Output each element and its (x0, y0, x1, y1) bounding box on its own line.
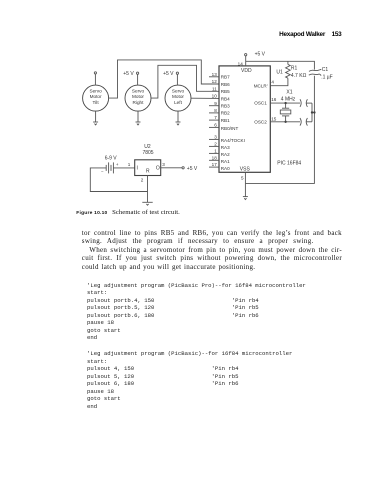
svg-text:PIC 16F84: PIC 16F84 (277, 161, 301, 167)
svg-text:3: 3 (214, 135, 217, 140)
svg-text:16: 16 (271, 97, 277, 102)
svg-text:VDD: VDD (241, 68, 252, 74)
svg-text:17: 17 (212, 162, 218, 167)
capacitor C2 (OSC1) (300, 99, 307, 107)
svg-text:2: 2 (214, 142, 217, 147)
pin 5 VSS (240, 166, 251, 183)
capacitor C3 (OSC2) (300, 118, 307, 126)
svg-text:1: 1 (128, 162, 131, 167)
svg-text:RB3: RB3 (221, 104, 230, 109)
crystal X1 (280, 90, 295, 122)
svg-text:RB4: RB4 (221, 96, 230, 101)
svg-text:RB0/INT: RB0/INT (221, 126, 239, 131)
ground (right servo) (136, 111, 141, 125)
voltage regulator U2 7805 (135, 144, 161, 176)
wire C3 to inner rail (306, 121, 312, 123)
svg-text:RB6: RB6 (221, 82, 230, 87)
svg-text:+: + (116, 162, 119, 167)
pin 9 RB3 (209, 101, 230, 109)
svg-text:Motor: Motor (172, 94, 184, 99)
svg-text:6: 6 (214, 123, 217, 128)
ground (VSS pin 5) (243, 183, 248, 199)
wire left servo to RB4 pin 10 (191, 97, 219, 99)
terminal +5V (regulator output) (182, 166, 198, 172)
svg-text:6-9 V: 6-9 V (105, 156, 118, 162)
wire tilt servo to RB6 pin 12 (109, 60, 219, 98)
pin 3 RA4/TOCKI (209, 135, 245, 144)
svg-text:O: O (156, 166, 160, 172)
svg-text:Tilt: Tilt (93, 100, 100, 105)
pin 15 OSC2 (254, 116, 276, 124)
svg-text:12: 12 (212, 79, 218, 84)
svg-text:9: 9 (214, 101, 217, 106)
battery B1 6-9V (101, 156, 119, 174)
svg-text:+5 V: +5 V (123, 71, 134, 77)
pin 12 RB6 (212, 79, 230, 87)
capacitor C1 (309, 67, 333, 80)
pin 13 RB7 (209, 72, 230, 80)
svg-text:RB2: RB2 (221, 111, 230, 116)
svg-text:7: 7 (214, 115, 217, 120)
svg-text:RA1: RA1 (221, 159, 230, 164)
svg-text:8: 8 (214, 108, 217, 113)
pin 17 RA0 (209, 162, 230, 171)
pin 14 VDD (238, 56, 252, 74)
svg-text:OSC1: OSC1 (254, 101, 267, 106)
svg-text:R1: R1 (291, 65, 298, 71)
svg-text:Servo: Servo (172, 89, 185, 94)
terminal +5V (VDD) (245, 52, 266, 58)
svg-text:RA2: RA2 (221, 152, 230, 157)
terminal +5V (right servo) (123, 71, 138, 85)
svg-text:U1: U1 (276, 70, 283, 76)
svg-text:.1 µF: .1 µF (321, 74, 333, 80)
svg-text:Motor: Motor (90, 94, 102, 99)
pin 16 OSC1 (254, 97, 276, 106)
svg-text:7805: 7805 (142, 150, 153, 156)
wire right servo to RB5 pin 11 (151, 65, 219, 98)
wire VSS ground rail to right rail (245, 76, 314, 184)
svg-text:13: 13 (212, 72, 218, 77)
svg-text:RA3: RA3 (221, 145, 230, 150)
wire junction tie to right rail (312, 112, 314, 114)
svg-text:2: 2 (141, 178, 144, 183)
svg-text:18: 18 (212, 155, 218, 160)
svg-text:14: 14 (238, 61, 244, 66)
wire battery positive to regulator input pin 1 (113, 167, 134, 169)
svg-text:RA0: RA0 (221, 166, 230, 171)
svg-text:+5 V: +5 V (163, 71, 174, 77)
ground (regulator) (142, 202, 152, 205)
op microcontroller U1 PIC 16F84 body (219, 66, 270, 172)
pin 10 RB4 (212, 94, 230, 102)
svg-text:RB1: RB1 (221, 118, 230, 123)
svg-text:5: 5 (241, 176, 244, 181)
svg-text:4.7 KΩ: 4.7 KΩ (291, 73, 307, 79)
wire OSC2 to C3 (270, 121, 300, 123)
svg-text:X1: X1 (286, 90, 292, 96)
svg-text:15: 15 (271, 116, 277, 121)
terminal +V tilt (94, 72, 96, 85)
svg-text:Servo: Servo (89, 89, 102, 94)
node junction dots (311, 111, 316, 113)
wire OSC1 to C2 (270, 102, 300, 104)
svg-text:4: 4 (271, 79, 274, 84)
svg-text:Left: Left (174, 100, 183, 105)
wire +5V rail (top) (246, 61, 315, 69)
svg-text:Motor: Motor (132, 94, 144, 99)
pin 1 RA2 (209, 149, 230, 158)
svg-text:I: I (137, 166, 138, 172)
svg-text:R: R (146, 169, 150, 175)
pin 2 RA3 (209, 142, 230, 151)
terminal +5V (left servo) (163, 71, 178, 85)
svg-text:Servo: Servo (132, 89, 145, 94)
pin 6 RB0/INT (209, 123, 239, 132)
resistor R1 (286, 61, 307, 79)
node dots on OSC lines (284, 102, 286, 123)
svg-text:C1: C1 (322, 67, 329, 73)
svg-text:11: 11 (212, 86, 217, 91)
svg-text:OSC2: OSC2 (254, 120, 267, 125)
pin 11 RB5 (212, 86, 230, 94)
pin 8 RB2 (209, 108, 230, 116)
pin 3 output wire (161, 167, 182, 169)
svg-text:4 MHz: 4 MHz (281, 97, 296, 103)
servo motor M1 (tilt) (83, 85, 109, 111)
svg-text:3: 3 (162, 162, 165, 167)
svg-text:Right: Right (133, 100, 145, 105)
pin 4 MCLR (254, 79, 275, 88)
svg-text:+5 V: +5 V (255, 52, 266, 58)
pin 2 ground wire (147, 176, 149, 203)
svg-text:RB5: RB5 (221, 89, 230, 94)
servo motor M2 (right) (125, 85, 151, 111)
wire C2 to inner rail (306, 102, 312, 104)
pin 7 RB1 (209, 115, 230, 123)
ground (left servo) (176, 111, 181, 125)
svg-text:RA4/TOCKI: RA4/TOCKI (221, 138, 245, 143)
svg-text:MCLR': MCLR' (254, 84, 268, 89)
servo motor M3 (left) (165, 85, 191, 111)
ground (tilt servo) (93, 111, 98, 125)
wire MCLR to R1 (270, 78, 288, 86)
svg-text:10: 10 (212, 94, 218, 99)
svg-text:RB7: RB7 (221, 75, 230, 80)
wire battery negative to ground rail (90, 168, 147, 192)
svg-text:+5 V: +5 V (187, 166, 198, 172)
svg-text:VSS: VSS (240, 166, 251, 172)
svg-text:1: 1 (214, 149, 217, 154)
pin 18 RA1 (209, 155, 230, 164)
svg-text:−: − (101, 169, 104, 174)
wire inner rail (311, 103, 313, 122)
